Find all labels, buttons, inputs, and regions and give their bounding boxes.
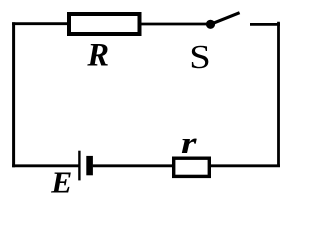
wire bottom right segment: [211, 164, 280, 167]
svg-text:R: R: [86, 37, 109, 73]
wire bottom middle segment: [93, 164, 173, 167]
wire left vertical: [12, 22, 15, 167]
wire top right stub: [250, 23, 280, 26]
battery E short plate: [86, 156, 93, 175]
svg-text:r: r: [181, 125, 198, 160]
svg-text:S: S: [189, 39, 211, 76]
switch S lever: [211, 13, 240, 25]
wire top middle segment: [142, 23, 211, 26]
svg-text:E: E: [50, 165, 72, 200]
resistor R: [69, 14, 140, 34]
switch S pivot node: [206, 20, 215, 29]
wire right vertical: [277, 22, 280, 167]
wire top left segment: [12, 22, 68, 25]
resistor r: [174, 158, 210, 176]
wire bottom left segment: [12, 164, 78, 167]
battery E long plate: [78, 151, 80, 181]
